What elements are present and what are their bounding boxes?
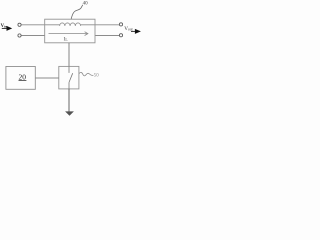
svg-text:IL: IL (64, 36, 69, 42)
svg-text:40: 40 (83, 2, 89, 7)
svg-text:20: 20 (19, 72, 27, 81)
svg-text:50: 50 (94, 73, 99, 78)
